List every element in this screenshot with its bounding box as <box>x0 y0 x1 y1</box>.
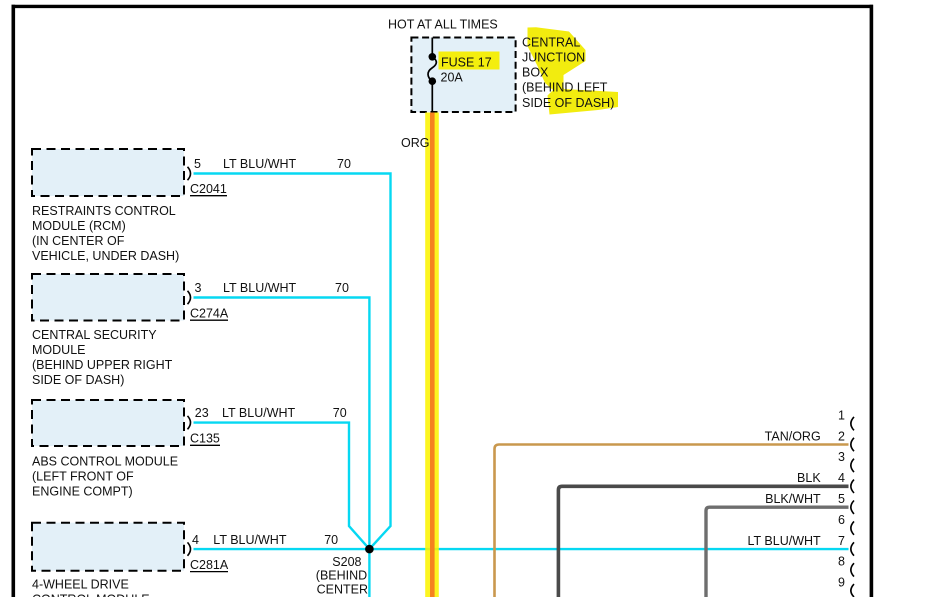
central junction box (dashed, behind left side of dash) <box>411 38 515 113</box>
svg-text:JUNCTION: JUNCTION <box>522 51 585 65</box>
svg-text:LT BLU/WHT: LT BLU/WHT <box>748 534 822 548</box>
label CENTRAL SECURITY MODULE <box>32 328 173 387</box>
label CENTRAL JUNCTION BOX (BEHIND LEFT SIDE OF DASH) <box>522 35 614 109</box>
FUSE 17 highlight <box>439 52 500 70</box>
label C135 <box>190 432 220 446</box>
svg-text:70: 70 <box>333 406 347 420</box>
svg-text:4-WHEEL DRIVE: 4-WHEEL DRIVE <box>32 577 129 591</box>
svg-text:70: 70 <box>335 281 349 295</box>
svg-text:LT BLU/WHT: LT BLU/WHT <box>223 281 297 295</box>
svg-text:1: 1 <box>838 408 845 422</box>
svg-text:SIDE OF DASH): SIDE OF DASH) <box>32 373 124 387</box>
svg-text:CONTROL MODULE: CONTROL MODULE <box>32 592 150 597</box>
svg-text:9: 9 <box>838 576 845 590</box>
svg-text:(BEHIND: (BEHIND <box>316 569 367 583</box>
wire LT BLU/WHT from C281A pin 4 through S208 to right connector pin 7 <box>194 548 849 550</box>
svg-text:S208: S208 <box>332 555 361 569</box>
svg-text:BLK/WHT: BLK/WHT <box>765 492 821 506</box>
svg-text:LT BLU/WHT: LT BLU/WHT <box>213 533 287 547</box>
svg-text:BOX: BOX <box>522 66 549 80</box>
svg-text:MODULE: MODULE <box>32 343 85 357</box>
connector arc C274A <box>188 291 191 304</box>
wire TAN/ORG from right connector pin 2 <box>495 445 849 597</box>
label S208 (BEHIND CENTER <box>316 555 368 597</box>
frame left border <box>12 5 16 597</box>
wire LT BLU/WHT from C135 pin 23 to splice S208 <box>194 423 370 549</box>
svg-text:LT BLU/WHT: LT BLU/WHT <box>222 406 296 420</box>
svg-text:C2041: C2041 <box>190 182 227 196</box>
right connector pin numbers 1-9 <box>838 408 845 589</box>
svg-text:(LEFT FRONT OF: (LEFT FRONT OF <box>32 469 134 483</box>
fuse bus wire (vertical, inside CJB) <box>431 38 433 57</box>
svg-text:(BEHIND LEFT: (BEHIND LEFT <box>522 81 608 95</box>
label C2041 <box>190 182 227 196</box>
svg-text:RESTRAINTS CONTROL: RESTRAINTS CONTROL <box>32 204 176 218</box>
svg-text:ENGINE COMPT): ENGINE COMPT) <box>32 484 133 498</box>
wire LT BLU/WHT from C274A pin 3 to splice S208 <box>194 298 370 550</box>
svg-text:5: 5 <box>194 157 201 171</box>
svg-text:C274A: C274A <box>190 307 229 321</box>
label LT BLU/WHT 70 (row 2) <box>223 281 349 295</box>
connector arc C281A <box>188 542 191 555</box>
wire ORG <box>430 113 435 597</box>
svg-text:ABS CONTROL MODULE: ABS CONTROL MODULE <box>32 454 178 468</box>
connector arc C2041 <box>188 167 191 180</box>
splice S208 <box>365 545 374 554</box>
svg-text:4: 4 <box>192 533 199 547</box>
label C274A <box>190 307 229 321</box>
svg-text:3: 3 <box>195 281 202 295</box>
svg-text:FUSE 17: FUSE 17 <box>441 56 492 70</box>
label RESTRAINTS CONTROL MODULE (RCM) <box>32 204 179 263</box>
fuse 17 element (terminals + squiggle) <box>428 53 436 85</box>
right connector pins 1-9 (arcs) <box>851 417 854 597</box>
svg-text:4: 4 <box>838 471 845 485</box>
label 4-WHEEL DRIVE CONTROL MODULE <box>32 577 150 597</box>
label C281A <box>190 558 229 572</box>
svg-text:8: 8 <box>838 555 845 569</box>
wire ORG highlighter band <box>425 113 439 597</box>
label LT BLU/WHT 70 (row 4) <box>213 533 338 547</box>
svg-text:6: 6 <box>838 513 845 527</box>
label ABS CONTROL MODULE <box>32 454 178 498</box>
svg-text:TAN/ORG: TAN/ORG <box>765 429 821 443</box>
svg-text:(BEHIND UPPER RIGHT: (BEHIND UPPER RIGHT <box>32 358 173 372</box>
svg-text:VEHICLE, UNDER DASH): VEHICLE, UNDER DASH) <box>32 249 179 263</box>
wire BLK from right connector pin 4 <box>558 486 848 597</box>
svg-text:CENTER: CENTER <box>317 583 368 597</box>
frame right border <box>870 5 874 597</box>
wire BLK/WHT from right connector pin 5 <box>706 507 849 597</box>
svg-text:7: 7 <box>838 534 845 548</box>
svg-text:SIDE OF DASH): SIDE OF DASH) <box>522 96 614 110</box>
abs control module box <box>32 400 184 446</box>
svg-text:MODULE (RCM): MODULE (RCM) <box>32 219 126 233</box>
svg-text:C281A: C281A <box>190 558 229 572</box>
4-wheel drive control module box <box>32 523 184 571</box>
svg-text:BLK: BLK <box>797 471 821 485</box>
svg-text:CENTRAL: CENTRAL <box>522 35 580 49</box>
central security module box <box>32 274 184 321</box>
highlighter marker over CENTRAL JUNCTION BOX text <box>528 27 619 114</box>
svg-text:C135: C135 <box>190 432 220 446</box>
svg-text:CENTRAL SECURITY: CENTRAL SECURITY <box>32 328 157 342</box>
svg-text:2: 2 <box>838 429 845 443</box>
wire LT BLU/WHT from splice S208 down <box>368 549 370 597</box>
frame top border <box>12 5 874 8</box>
svg-text:20A: 20A <box>441 71 464 85</box>
svg-text:23: 23 <box>195 406 209 420</box>
wire LT BLU/WHT from C2041 pin 5 to splice S208 <box>194 174 391 550</box>
svg-text:LT BLU/WHT: LT BLU/WHT <box>223 157 297 171</box>
svg-text:HOT AT ALL TIMES: HOT AT ALL TIMES <box>388 18 498 32</box>
svg-text:3: 3 <box>838 450 845 464</box>
svg-text:5: 5 <box>838 492 845 506</box>
label LT BLU/WHT 70 (row 3) <box>222 406 347 420</box>
connector arc C135 <box>188 416 191 429</box>
svg-text:70: 70 <box>324 533 338 547</box>
restraints control module box <box>32 149 184 196</box>
svg-text:ORG: ORG <box>401 136 429 150</box>
svg-text:70: 70 <box>337 157 351 171</box>
label LT BLU/WHT 70 (row 1) <box>223 157 351 171</box>
svg-text:(IN CENTER OF: (IN CENTER OF <box>32 234 125 248</box>
